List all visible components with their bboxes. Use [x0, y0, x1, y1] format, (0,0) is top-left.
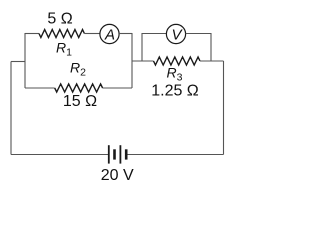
wire: bottom right run from battery	[128, 154, 224, 156]
svg-text:20 V: 20 V	[101, 167, 134, 184]
svg-text:1.25 Ω: 1.25 Ω	[151, 83, 199, 100]
wire: voltmeter branch left vertical	[141, 33, 143, 61]
wire: ammeter to inner-right vertical	[119, 33, 132, 35]
svg-text:A: A	[104, 27, 115, 44]
wire: R2 branch right lead	[103, 87, 132, 89]
wire: left tap from outer loop to parallel pair	[11, 61, 25, 63]
battery BT1 plate long 2	[120, 145, 122, 163]
resistor R2	[55, 84, 103, 92]
ammeter U-A circle	[100, 24, 119, 43]
wire: R2 branch left lead	[25, 87, 55, 89]
battery BT1 plate long 1	[108, 145, 110, 163]
battery BT1 plate short 2	[125, 149, 128, 159]
wire: voltmeter branch left horizontal	[142, 33, 166, 35]
wire: voltmeter branch right horizontal	[186, 33, 211, 35]
resistor R1	[39, 30, 84, 38]
wire: left outer vertical	[10, 62, 12, 155]
wire: R3 right lead to outer loop	[200, 60, 224, 62]
wire: R1 to ammeter	[84, 33, 99, 35]
wire: right outer vertical	[223, 61, 225, 155]
wire: voltmeter branch right vertical	[210, 33, 212, 61]
wire: middle connector to R3 section	[132, 60, 154, 62]
svg-text:15 Ω: 15 Ω	[63, 93, 97, 110]
svg-text:5 Ω: 5 Ω	[47, 11, 72, 28]
wire: inner-left vertical (joins R1 and R2 branches)	[24, 33, 26, 88]
battery BT1 plate short 1	[113, 149, 116, 159]
resistor R3	[154, 57, 201, 65]
wire: inner-right vertical (joins R1 and R2 branches)	[131, 33, 133, 88]
wire: R1 branch left lead	[25, 33, 39, 35]
voltmeter U-V circle	[166, 24, 185, 43]
wire: bottom left run to battery	[11, 154, 108, 156]
